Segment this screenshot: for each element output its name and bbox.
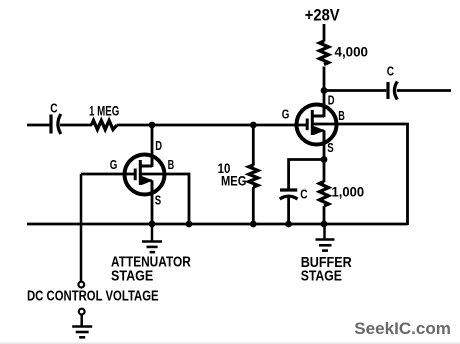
ground (attenuator stage) <box>142 224 162 252</box>
wire: main horizontal line to right FET gate <box>117 124 307 127</box>
node: drain of Q1 on main line <box>149 122 156 129</box>
resistor 1 MEG (zigzag) <box>92 121 118 130</box>
svg-text:STAGE: STAGE <box>301 268 342 285</box>
resistor 4,000 (zigzag) <box>320 41 329 65</box>
wire: input line left segment <box>27 124 50 127</box>
node: rail / 1,000 resistor and buffer ground <box>321 221 328 228</box>
wire: 4,000 down to Q2 drain node and into circle <box>323 67 326 118</box>
svg-text:B: B <box>168 157 175 172</box>
node: rail / bypass capacitor <box>285 221 292 228</box>
svg-text:C: C <box>387 63 395 78</box>
node: drain of Q2 / output cap <box>321 87 328 94</box>
transistor Q1 (attenuator MOSFET) <box>125 155 167 195</box>
resistor 1,000 (zigzag) <box>320 182 329 207</box>
svg-text:+28V: +28V <box>305 7 340 25</box>
wire: between input cap and R 1 MEG <box>60 124 92 127</box>
svg-text:1 MEG: 1 MEG <box>89 104 119 119</box>
capacitor C (input coupling), curved plate <box>58 114 61 134</box>
wire: 1,000 bottom lead <box>323 206 326 224</box>
node: Q2 source / bypass cap <box>321 156 328 163</box>
capacitor C (source bypass), curved plate <box>280 196 298 199</box>
wire: DC control vertical line <box>80 174 83 282</box>
svg-text:MEG: MEG <box>221 174 246 189</box>
svg-text:DC CONTROL VOLTAGE: DC CONTROL VOLTAGE <box>27 287 159 304</box>
svg-text:G: G <box>110 157 118 172</box>
wire: Q1 gate lead from DC control corner <box>81 173 136 176</box>
svg-text:1,000: 1,000 <box>332 184 365 199</box>
node: rail / 10 MEG bottom <box>250 221 257 228</box>
svg-text:S: S <box>155 192 162 207</box>
wire: source node left to bypass cap <box>289 160 324 190</box>
svg-text:C: C <box>300 187 308 202</box>
capacitor C (output coupling), flat plate <box>386 82 389 99</box>
wire: 10 MEG bottom lead <box>252 187 255 224</box>
wire: bottom rail <box>27 223 408 226</box>
wire: stub from lower terminal to ground <box>80 315 83 327</box>
terminal: open circle upper (DC control) <box>78 282 84 288</box>
wire: +28V supply lead <box>323 24 326 42</box>
transistor Q2 (buffer MOSFET) <box>297 105 339 145</box>
svg-text:STAGE: STAGE <box>111 267 153 284</box>
wire: Q1 drain lead down into circle <box>151 125 154 167</box>
ground (buffer stage) <box>316 224 335 251</box>
wire: Q2 bulk lead right then down to rail corner <box>336 124 408 225</box>
scan artifact: faint bottom edge <box>0 342 460 344</box>
svg-text:C: C <box>50 101 58 116</box>
wire: Q1 source lead down to bottom rail <box>151 181 154 225</box>
capacitor C (source bypass), flat plate <box>280 188 297 191</box>
wire: bypass cap bottom lead <box>287 198 290 225</box>
svg-text:B: B <box>338 108 345 123</box>
terminal: open circle lower (to ground) <box>79 309 85 315</box>
svg-text:SeekIC.com: SeekIC.com <box>354 319 451 338</box>
ground (DC control) <box>72 327 92 338</box>
wire: output line to coupling cap <box>324 89 386 92</box>
svg-text:D: D <box>155 138 162 153</box>
svg-text:G: G <box>282 107 290 122</box>
node: top of 10 MEG on main line <box>250 122 257 129</box>
capacitor C (output coupling), curved plate <box>394 82 397 100</box>
resistor 10 MEG (zigzag) <box>249 165 258 187</box>
wire: Q1 bulk lead right then down to rail <box>166 174 189 224</box>
wire: output line right segment <box>397 89 451 92</box>
capacitor C (input coupling), flat plate <box>49 115 52 134</box>
node: rail / Q1 source and attenuator ground <box>149 221 156 228</box>
wire: 10 MEG top lead <box>252 125 255 166</box>
node: rail / Q1 bulk wire <box>186 221 193 228</box>
svg-text:4,000: 4,000 <box>335 45 369 60</box>
svg-text:D: D <box>328 92 335 107</box>
wire: Q2 source lead down <box>323 131 326 183</box>
svg-text:S: S <box>327 140 334 155</box>
